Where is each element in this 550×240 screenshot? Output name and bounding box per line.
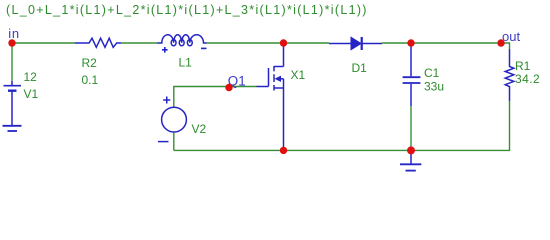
resistor R1 <box>505 49 514 101</box>
svg-text:R2: R2 <box>82 56 98 70</box>
junction dot in <box>8 39 15 46</box>
svg-text:in: in <box>8 26 20 41</box>
wire L1 to drain node <box>207 42 330 44</box>
junction dot source bottom <box>280 147 287 154</box>
svg-text:C1: C1 <box>424 66 440 80</box>
L1 minus mark <box>201 47 207 49</box>
svg-text:(L_0+L_1*i(L1)+L_2*i(L1)*i(L1): (L_0+L_1*i(L1)+L_2*i(L1)*i(L1)+L_3*i(L1)… <box>6 3 368 17</box>
svg-text:out: out <box>502 29 520 44</box>
wire R1 to bottom rail <box>174 101 510 151</box>
svg-text:V2: V2 <box>192 122 207 136</box>
L1 coil loop 2 <box>179 40 184 46</box>
inductor L1 <box>158 35 207 43</box>
wire C1 to bottom rail <box>410 106 412 150</box>
wire V2 bottom <box>173 132 175 150</box>
svg-text:12: 12 <box>24 70 38 84</box>
ground under V1 <box>3 126 22 131</box>
L1 coil loop 3 <box>187 40 192 46</box>
voltage source V2 <box>158 97 186 142</box>
svg-text:D1: D1 <box>352 61 368 75</box>
svg-text:0.1: 0.1 <box>82 73 99 87</box>
svg-text:L1: L1 <box>179 56 193 70</box>
diode D1 <box>329 37 382 50</box>
L1 coil loop 1 <box>171 40 176 46</box>
capacitor C1 <box>403 43 421 106</box>
svg-text:33u: 33u <box>424 80 444 94</box>
wire diode to out corner <box>382 43 510 50</box>
junction dot out <box>497 39 504 46</box>
svg-text:34.2: 34.2 <box>515 72 540 86</box>
gate wire from V2 to Q1 node <box>174 87 257 107</box>
battery V1 <box>4 81 22 125</box>
nmos X1 <box>257 43 284 150</box>
resistor R2 <box>75 38 121 47</box>
junction dot C1 bottom <box>407 146 415 154</box>
ground at bottom rail <box>400 150 421 170</box>
svg-text:X1: X1 <box>291 68 306 82</box>
wire R2 to L1 <box>121 42 158 44</box>
svg-text:V1: V1 <box>24 87 39 101</box>
svg-text:R1: R1 <box>515 59 531 73</box>
nmos arrow <box>275 76 282 82</box>
wire in to R2 <box>12 42 75 44</box>
wire in node down to V1 <box>11 43 13 81</box>
L1 plus mark <box>162 47 168 53</box>
junction dot Q1 <box>225 84 232 91</box>
junction dot C1 top <box>407 39 414 46</box>
junction dot drain top <box>280 39 287 46</box>
